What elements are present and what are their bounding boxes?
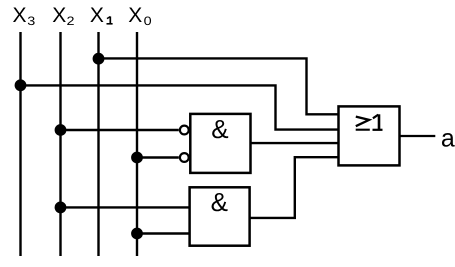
wire X0 to AND1 input 2 [137, 156, 179, 158]
wire OR output to a [400, 135, 436, 137]
node X3 junction [15, 79, 27, 91]
input rail X2 [59, 32, 61, 256]
label X1 [90, 4, 113, 27]
svg-text:0: 0 [144, 14, 152, 28]
input rail X0 [136, 32, 138, 256]
svg-text:X: X [13, 4, 27, 27]
wire X2 to AND1 input 1 [61, 129, 179, 131]
svg-text:a: a [441, 124, 455, 152]
label X0 [128, 4, 152, 28]
svg-text:&: & [211, 114, 228, 144]
svg-text:X: X [128, 4, 142, 27]
and-gate U1 box [190, 114, 250, 173]
or-gate U3 box [339, 106, 400, 165]
svg-text:3: 3 [27, 14, 35, 28]
wire X3 to OR input 2 [21, 85, 339, 129]
inversion bubble U1 input 2 [180, 153, 189, 162]
label X3 [13, 4, 36, 28]
svg-text:2: 2 [67, 14, 75, 28]
svg-text:X: X [90, 4, 104, 27]
wire AND1 output to OR input 3 [251, 142, 339, 144]
svg-text:&: & [211, 187, 228, 217]
node X0 junction lower [131, 228, 143, 240]
svg-text:X: X [52, 4, 66, 27]
and-gate U2 box [190, 187, 250, 245]
node X2 junction lower [55, 202, 67, 214]
wire X1 to OR input 1 [99, 58, 339, 114]
node X2 junction upper [55, 124, 67, 136]
wire AND2 output to OR input 4 [250, 157, 339, 218]
node X1 junction [93, 53, 105, 65]
input rail X1 [97, 32, 99, 256]
wire X0 to AND2 input 2 [137, 232, 190, 234]
inversion bubble U1 input 1 [180, 126, 189, 135]
input rail X3 [19, 32, 21, 256]
label X2 [52, 4, 75, 28]
node X0 junction upper [131, 152, 143, 164]
wire X2 to AND2 input 1 [61, 206, 190, 208]
or-gate U3 label [356, 114, 383, 130]
